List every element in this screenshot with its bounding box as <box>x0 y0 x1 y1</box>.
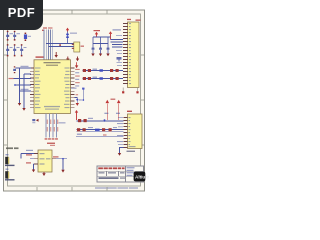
wires left of U1 <box>9 66 32 108</box>
wires right of U1 lower <box>71 88 85 103</box>
svg-text:Altium: Altium <box>135 175 149 180</box>
power port pair above USB rows <box>104 99 120 121</box>
U1 right pins <box>71 68 75 108</box>
PDF badge <box>0 0 43 30</box>
capacitor C4 <box>13 44 19 56</box>
wire XTAL pair <box>46 44 73 47</box>
U2 pins <box>34 154 56 165</box>
resistor row B to J1 <box>83 77 124 80</box>
net labels right of U1 upper pins <box>75 69 80 87</box>
ground arrow U2 right <box>61 170 64 173</box>
power arrow above row A <box>75 62 78 68</box>
crystal Y1 <box>72 42 84 52</box>
frame footer text <box>95 187 138 188</box>
MCU U1 <box>34 56 71 113</box>
ground arrow GND1 <box>66 57 69 62</box>
wire bundle below U1 <box>45 114 59 140</box>
wire row 3 to J2 <box>76 134 124 137</box>
resistor row A to J1 <box>83 69 124 72</box>
power port above USB rows <box>75 110 78 120</box>
ground arrow GND2 <box>76 57 79 62</box>
connector J2 pins <box>117 117 128 148</box>
connector J1 pins <box>123 24 128 84</box>
power port VDD top middle <box>66 28 69 32</box>
capacitor C9 <box>107 37 110 54</box>
capacitor C6 left of bundle <box>32 119 38 124</box>
small part left of J1 <box>117 57 122 62</box>
mounting holes heading <box>6 147 19 149</box>
regulator U2 <box>38 150 52 172</box>
ground arrow C9 <box>106 54 109 57</box>
ground arrow U2 left <box>32 170 35 173</box>
connector J1 <box>127 19 141 88</box>
U1 pin name text columns <box>35 68 70 109</box>
wires around U2 <box>21 154 67 170</box>
ground arrow U2 bottom <box>42 172 45 176</box>
capacitor C8 <box>99 37 102 54</box>
wire bundle into U1 top <box>44 30 53 60</box>
net label right of bundle <box>59 122 66 123</box>
capacitor C7 <box>92 37 95 54</box>
power port +3.3V top right <box>94 30 101 37</box>
wires into J1 upper pins <box>111 40 124 48</box>
mounting hole MH2 <box>5 169 15 181</box>
net labels above top wire bundle <box>42 27 53 31</box>
capacitor C5 <box>20 44 26 56</box>
ferrite bead L1 <box>66 32 77 44</box>
ground arrow below U1 right wires <box>76 103 79 106</box>
mounting hole MH1 <box>5 154 15 166</box>
ground arrow C8 <box>99 54 102 57</box>
U1 left pins <box>30 68 34 108</box>
ground arrow below J2 <box>118 148 135 156</box>
diode D1 <box>24 33 31 41</box>
ground arrow C7 <box>91 54 94 57</box>
capacitor C3 <box>6 44 12 56</box>
title block <box>97 166 144 182</box>
mount pin pads below J1 <box>122 88 138 94</box>
pin labels left of J1 <box>116 35 122 66</box>
capacitor C2 <box>13 31 20 41</box>
ground arrow left of U1 b <box>22 108 25 111</box>
Altium logo <box>134 172 150 182</box>
USB wire row 2 (pair) <box>77 127 124 131</box>
net labels left of U2 <box>26 150 33 164</box>
USB wire row 1 (pair) <box>77 118 124 122</box>
sheet background <box>0 0 149 198</box>
power port arrow right with dot <box>109 29 121 39</box>
wire cap rail <box>93 37 111 44</box>
ground arrow left of U1 <box>18 103 21 106</box>
designator above U2 <box>47 143 55 146</box>
connector J2 <box>127 111 142 149</box>
capacitor C1 <box>6 31 13 41</box>
ground arrow below C near crystal <box>55 52 58 58</box>
capacitor on wire left of U1 <box>13 66 16 73</box>
